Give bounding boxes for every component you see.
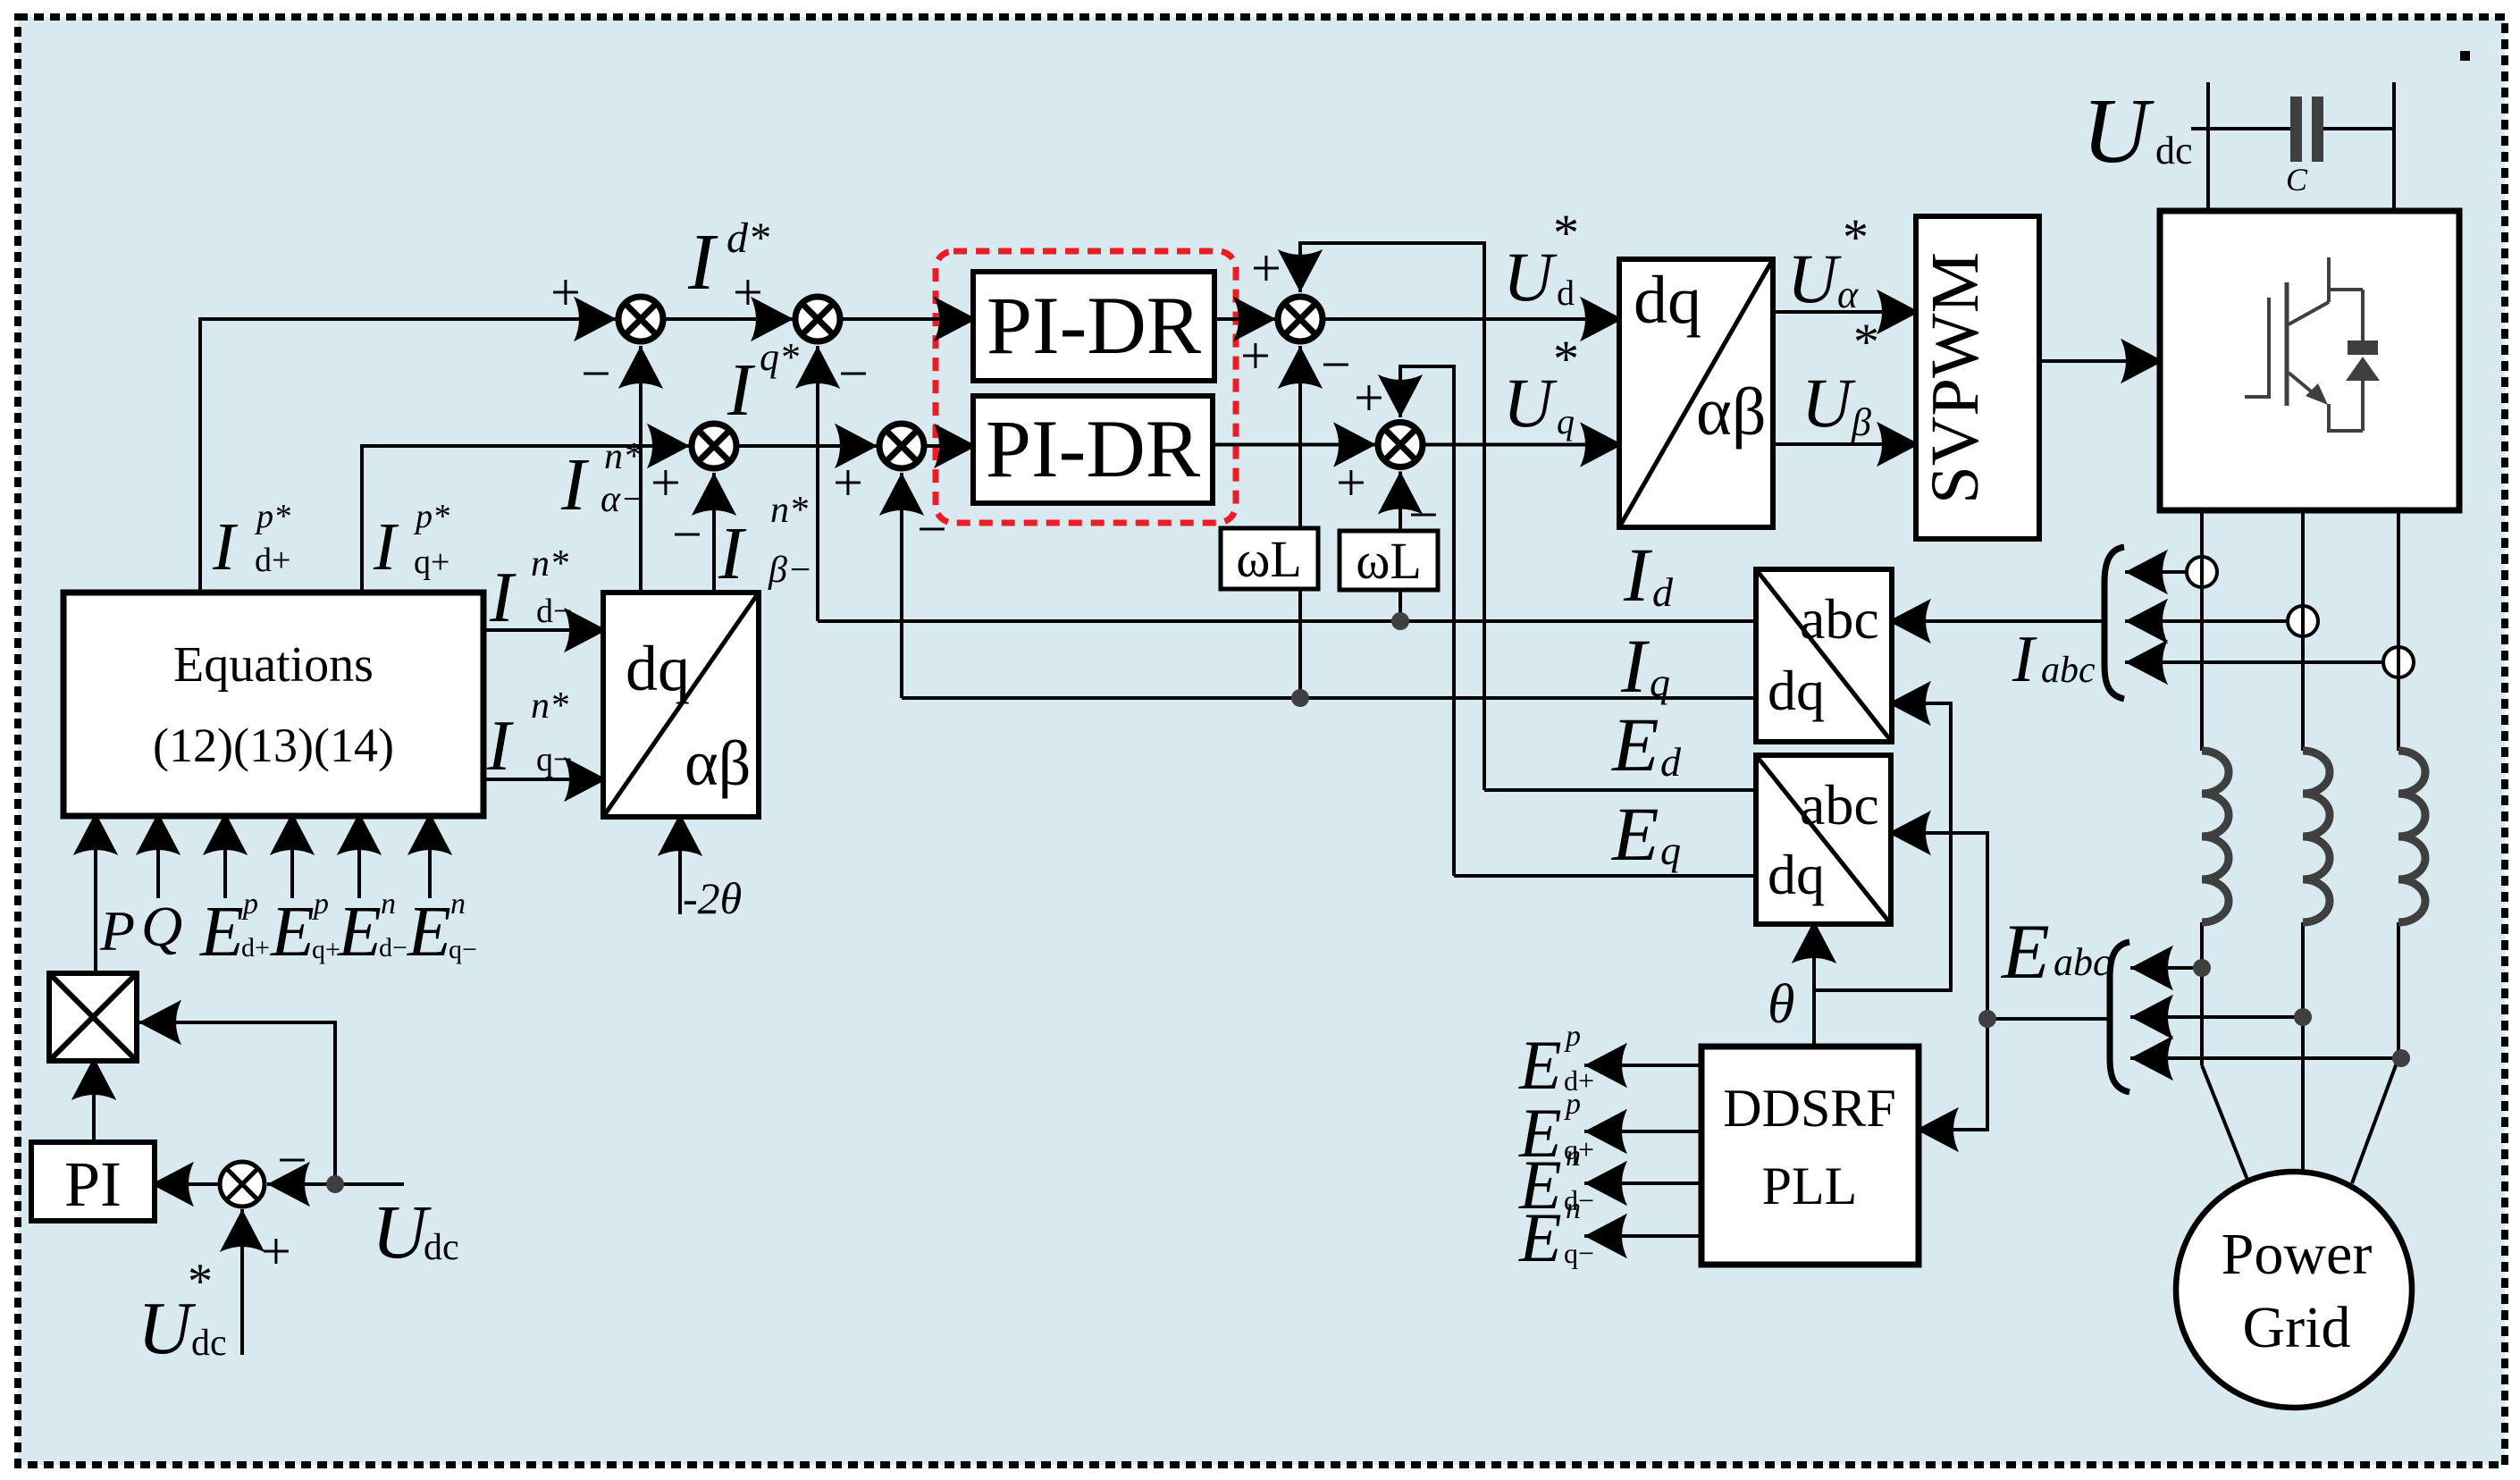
svg-text:dc: dc	[424, 1227, 459, 1268]
svg-text:−: −	[581, 344, 611, 403]
wire SJ3 to SJ4	[739, 444, 878, 448]
svg-text:dq: dq	[1768, 843, 1825, 906]
PI-DR block 1	[973, 272, 1214, 381]
svg-text:+: +	[1251, 239, 1281, 298]
wire Udc* up into SJ7 bottom	[240, 1209, 244, 1355]
svg-text:Equations: Equations	[173, 637, 374, 693]
svg-text:I: I	[373, 509, 399, 584]
summing junction SJ4	[879, 424, 924, 468]
wire Iabc tap C	[2125, 660, 2383, 664]
svg-text:p: p	[312, 887, 329, 921]
inductor Lb	[2303, 751, 2330, 922]
wire DC rail right	[2392, 82, 2396, 211]
multiplier block	[49, 973, 137, 1061]
wire SJ2 to PI-DR1	[843, 317, 977, 321]
wire Iq feedback up to SJ4 bottom	[900, 473, 903, 698]
svg-text:q+: q+	[414, 543, 449, 581]
svg-text:dq: dq	[1634, 263, 1701, 338]
svg-text:I: I	[560, 443, 590, 526]
svg-text:n: n	[1566, 1139, 1581, 1173]
wire Equations output Id- to dq1	[483, 628, 607, 632]
wire Eq feedforward: from Eq line up and into SJ6 top	[1400, 366, 1454, 876]
wire I*p d+ vertical from Equations to row1	[200, 319, 617, 593]
wire PI-DR2 to SJ6	[1213, 443, 1376, 447]
svg-text:dc: dc	[2155, 129, 2193, 172]
svg-text:α−: α−	[601, 479, 645, 520]
brace for Eabc	[2110, 942, 2129, 1092]
wire -2theta into dq1 bottom	[678, 813, 682, 914]
svg-text:p*: p*	[254, 498, 290, 535]
IGBT symbol	[2245, 257, 2363, 431]
svg-text:PI-DR: PI-DR	[987, 280, 1202, 371]
junction dot Eabc bus	[1978, 1010, 1996, 1028]
svg-text:n: n	[450, 887, 466, 921]
svg-text:U: U	[1802, 364, 1856, 441]
wire SJ5 output Ud* to dq3	[1325, 317, 1623, 321]
svg-text:p: p	[1564, 1088, 1581, 1121]
wire SJ6 output Uq* to dq3	[1425, 443, 1623, 447]
wire Ua* from dq3 to SVPWM	[1773, 310, 1919, 314]
current sensor C	[2383, 647, 2414, 677]
IGBT diode triangle	[2346, 357, 2380, 381]
svg-text:E: E	[1610, 791, 1659, 877]
svg-text:I: I	[1623, 532, 1652, 618]
svg-text:Grid: Grid	[2243, 1295, 2351, 1360]
wire Q input to Equations	[156, 812, 160, 898]
svg-text:θ: θ	[1768, 974, 1794, 1035]
svg-text:dq: dq	[626, 633, 690, 704]
wire Ed line from abc/dq2	[1484, 788, 1756, 792]
svg-text:I: I	[489, 559, 517, 637]
svg-text:U: U	[1503, 364, 1558, 441]
wire Udc feedback into multiplier right	[139, 1022, 335, 1184]
svg-text:I: I	[212, 509, 239, 584]
svg-text:U: U	[1787, 240, 1842, 317]
wire dq1 top output Ia- to SJ1 bottom	[639, 346, 643, 593]
svg-text:αβ: αβ	[1696, 374, 1767, 450]
svg-text:q+: q+	[312, 935, 340, 964]
svg-text:q: q	[1650, 660, 1670, 705]
SVPWM block	[1916, 216, 2039, 539]
wire Udc line into SJ7	[267, 1182, 404, 1186]
wire wL1 output up into SJ5 bottom	[1298, 346, 1302, 528]
svg-text:P: P	[99, 899, 135, 963]
svg-text:d−: d−	[536, 593, 572, 630]
wire capacitor left lead	[2191, 127, 2290, 130]
svg-text:*: *	[1853, 313, 1879, 371]
wire Ed+ input to Equations	[223, 812, 227, 898]
svg-text:n*: n*	[531, 685, 568, 727]
svg-text:I: I	[727, 349, 756, 432]
svg-text:I: I	[687, 218, 718, 307]
svg-text:E: E	[270, 893, 315, 971]
svg-text:SVPWM: SVPWM	[1918, 252, 1993, 504]
svg-text:*: *	[1553, 204, 1579, 262]
svg-text:+: +	[651, 453, 681, 512]
junction dot on Udc line	[326, 1175, 344, 1193]
svg-text:-2θ: -2θ	[683, 873, 742, 923]
wire Eabc bus to junction	[1987, 1017, 2111, 1021]
wire Iq line from abc/dq1	[902, 696, 1756, 700]
svg-text:αβ: αβ	[685, 727, 751, 799]
wire Eabc up to abc/dq2	[1888, 833, 1987, 1019]
wire theta from PLL to abc/dq2 bottom	[1812, 921, 1816, 1047]
svg-text:d+: d+	[241, 933, 270, 963]
wire Ed- input to Equations	[357, 812, 361, 898]
small dot top right	[2460, 51, 2470, 61]
wire Eabc tap C	[2130, 1056, 2401, 1060]
svg-text:q: q	[1557, 401, 1575, 441]
wire P input from multiplier to Equations	[94, 812, 97, 973]
svg-text:U: U	[1503, 238, 1558, 315]
svg-text:−: −	[838, 344, 869, 403]
wire phase C slant to grid	[2352, 1058, 2398, 1183]
wire Eabc tap A	[2130, 966, 2202, 970]
svg-text:E: E	[199, 893, 244, 971]
wire phase A below inductor	[2200, 922, 2204, 1065]
summing junction SJ3	[692, 424, 736, 468]
wire Eq line from abc/dq2	[1454, 874, 1756, 878]
PI block	[31, 1142, 155, 1221]
wire wL1 input from Iq line	[1298, 589, 1302, 698]
wire Iabc to abc/dq1	[1888, 619, 2105, 623]
svg-text:n*: n*	[770, 490, 808, 531]
wire capacitor right lead	[2323, 127, 2394, 130]
svg-text:abc: abc	[1800, 773, 1879, 837]
Equations block	[63, 593, 483, 816]
svg-text:+: +	[1336, 453, 1366, 512]
svg-text:−: −	[277, 1131, 307, 1190]
PI-DR block 2	[973, 396, 1213, 503]
svg-text:+: +	[733, 263, 763, 322]
dq/ab block dq1	[603, 593, 759, 817]
svg-text:β: β	[1851, 400, 1871, 444]
svg-text:I: I	[1620, 623, 1650, 709]
svg-text:*: *	[1553, 330, 1579, 388]
svg-text:(12)(13)(14): (12)(13)(14)	[153, 719, 394, 772]
svg-text:abc: abc	[2041, 650, 2096, 691]
svg-text:n*: n*	[604, 436, 642, 477]
brace for Iabc	[2104, 547, 2124, 699]
svg-text:p: p	[241, 887, 258, 921]
svg-text:DDSRF: DDSRF	[1723, 1079, 1895, 1138]
svg-text:E: E	[1610, 702, 1659, 787]
wire phase A from inverter down	[2200, 510, 2204, 751]
wire Id feedback up to SJ2 bottom	[816, 346, 819, 621]
svg-text:+: +	[833, 453, 863, 512]
summing junction SJ2	[795, 297, 840, 341]
Power Grid circle	[2176, 1172, 2412, 1408]
wire Equations output Iq- to dq1	[483, 778, 607, 781]
wire PLL output Eq+	[1584, 1130, 1701, 1133]
svg-text:q−: q−	[536, 741, 572, 778]
wire PI output up into multiplier	[92, 1057, 96, 1142]
wL block 1	[1221, 528, 1318, 589]
current sensor B	[2288, 606, 2318, 636]
wire phase B below inductor	[2301, 922, 2305, 1173]
svg-text:−: −	[917, 500, 947, 559]
wire Eq- input to Equations	[428, 812, 432, 898]
IGBT diode cathode bar	[2348, 341, 2378, 355]
svg-text:n: n	[1566, 1192, 1581, 1225]
summing junction SJ6	[1378, 423, 1423, 467]
capacitor C plates	[2290, 97, 2302, 162]
svg-text:E: E	[1518, 1198, 1562, 1276]
svg-text:PI: PI	[64, 1148, 122, 1220]
summing junction SJ7 (Udc)	[220, 1162, 265, 1207]
svg-text:d+: d+	[255, 542, 290, 579]
wire Eabc down to DDSRF PLL	[1916, 1019, 1987, 1130]
red dotted box around PI-DR blocks	[936, 251, 1236, 523]
inductor La	[2202, 751, 2229, 922]
svg-text:Power: Power	[2222, 1222, 2373, 1287]
svg-text:+: +	[1354, 368, 1384, 427]
wire PLL output Eq-	[1584, 1234, 1701, 1238]
wire dq1 top output Ib- to SJ3 bottom	[712, 473, 716, 593]
wire phase A slant to grid	[2202, 1065, 2247, 1180]
summing junction SJ5	[1278, 297, 1323, 341]
wire SVPWM to inverter	[2040, 359, 2163, 363]
inverter block	[2160, 211, 2459, 510]
svg-text:−: −	[1321, 335, 1351, 394]
svg-text:U: U	[372, 1189, 432, 1274]
svg-text:d*: d*	[727, 214, 769, 262]
wire Ub* from dq3 to SVPWM	[1773, 442, 1919, 446]
summing junction SJ1	[618, 297, 663, 341]
svg-text:E: E	[1518, 1026, 1562, 1104]
wire wL2 output up into SJ6 bottom	[1399, 472, 1402, 532]
wire Id line from abc/dq1	[818, 619, 1756, 623]
svg-text:d: d	[1557, 273, 1575, 313]
svg-text:E: E	[2000, 909, 2050, 996]
svg-text:I: I	[2012, 623, 2037, 696]
svg-text:n: n	[381, 887, 396, 921]
abc/dq block 1	[1756, 569, 1892, 742]
wire PLL output Ed+	[1584, 1064, 1701, 1067]
DDSRF PLL block	[1701, 1047, 1919, 1265]
wire SJ1 to SJ2	[666, 317, 794, 321]
wire phase C from inverter down	[2397, 510, 2400, 751]
wire SJ7 to PI	[151, 1182, 219, 1186]
wire Ed feedforward: from Ed line up and into SJ5 top	[1300, 243, 1484, 790]
abc/dq block 2	[1756, 755, 1891, 924]
wire PI-DR1 to SJ5	[1214, 317, 1276, 321]
wire DC rail left	[2206, 82, 2210, 211]
wire SJ4 to PI-DR2	[927, 444, 977, 448]
svg-text:n*: n*	[531, 543, 568, 584]
svg-text:I: I	[718, 512, 747, 595]
wire wL2 input from Id line	[1399, 590, 1402, 621]
svg-text:−: −	[1408, 485, 1439, 544]
wire Iabc tap A	[2125, 570, 2187, 574]
IGBT emitter arrowhead	[2306, 383, 2328, 405]
junction dot Eabc phase A	[2193, 959, 2211, 977]
svg-text:p*: p*	[413, 498, 449, 535]
wire theta branch to abc/dq1 right	[1814, 703, 1951, 990]
inductor Lc	[2398, 751, 2425, 922]
wire PLL output Ed-	[1584, 1181, 1701, 1185]
svg-text:d−: d−	[379, 933, 407, 963]
svg-text:+: +	[550, 263, 581, 322]
svg-text:dc: dc	[191, 1323, 227, 1364]
svg-text:abc: abc	[2054, 940, 2111, 984]
junction dot on Iq line at wL1	[1291, 689, 1309, 707]
wire I*p q+ vertical from Equations to row2	[362, 446, 690, 593]
svg-text:−: −	[672, 505, 702, 564]
svg-text:d: d	[1652, 569, 1674, 615]
svg-text:p: p	[1564, 1020, 1581, 1053]
wire Eabc tap B	[2130, 1015, 2303, 1019]
svg-text:E: E	[337, 893, 382, 971]
svg-text:dq: dq	[1768, 659, 1825, 722]
wire Iabc tap B	[2125, 619, 2288, 623]
wL block 2	[1340, 531, 1438, 590]
svg-text:q−: q−	[1564, 1237, 1594, 1269]
svg-text:E: E	[407, 893, 451, 971]
svg-text:α: α	[1837, 273, 1859, 316]
wire phase B from inverter down	[2301, 510, 2305, 751]
wire phase C below inductor	[2397, 922, 2400, 1058]
svg-text:q−: q−	[449, 935, 477, 964]
junction dot Eabc phase B	[2294, 1008, 2312, 1026]
svg-text:β−: β−	[768, 550, 812, 591]
svg-text:U: U	[138, 1287, 197, 1370]
junction dot Eabc phase C	[2392, 1049, 2410, 1067]
svg-text:C: C	[2286, 162, 2308, 198]
svg-text:I: I	[486, 707, 514, 786]
svg-text:d: d	[1660, 739, 1682, 785]
svg-text:PLL: PLL	[1762, 1156, 1858, 1215]
svg-text:+: +	[1240, 326, 1271, 385]
wire Eq+ input to Equations	[290, 812, 294, 898]
junction dot on Id line at wL2	[1391, 612, 1409, 630]
svg-text:PI-DR: PI-DR	[986, 403, 1201, 494]
svg-text:*: *	[1843, 208, 1869, 266]
svg-text:q: q	[1660, 828, 1681, 873]
svg-text:q*: q*	[760, 335, 799, 379]
svg-text:U: U	[2082, 80, 2155, 182]
current sensor A	[2187, 557, 2217, 587]
svg-text:+: +	[261, 1222, 291, 1281]
dq/ab block dq3	[1619, 259, 1773, 527]
svg-text:ωL: ωL	[1236, 530, 1302, 588]
svg-text:abc: abc	[1800, 587, 1879, 651]
svg-text:Q: Q	[141, 895, 182, 958]
